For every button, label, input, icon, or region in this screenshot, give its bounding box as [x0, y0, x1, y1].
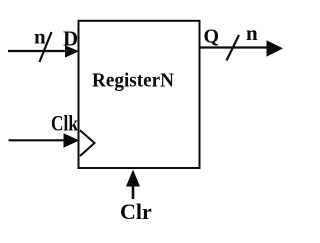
svg-text:Clr: Clr	[120, 199, 152, 224]
svg-text:D: D	[63, 27, 78, 51]
svg-text:Q: Q	[204, 26, 220, 48]
svg-text:n: n	[34, 24, 46, 48]
svg-text:RegisterN: RegisterN	[92, 70, 175, 92]
svg-text:Clk: Clk	[51, 111, 79, 136]
svg-text:n: n	[246, 21, 258, 45]
